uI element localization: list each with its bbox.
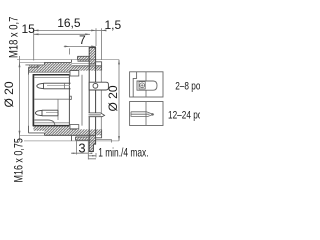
arrow panel [92, 155, 96, 157]
arrow 16,5 right [91, 29, 96, 31]
solder contact 2 (lower, flat tab) [89, 113, 105, 117]
nut step bottom [71, 136, 73, 141]
hatch flange bar top [89, 48, 95, 65]
svg-text:1 min./4 max.: 1 min./4 max. [98, 147, 148, 160]
ring inner wall top [29, 71, 72, 73]
collar box bottom [70, 125, 79, 129]
hatch ring wall bottom band [33, 126, 44, 131]
back shell bottom [96, 129, 102, 137]
leader line M18 top [17, 59, 119, 61]
arrow 1,5 right outside [102, 29, 107, 31]
shroud block top edge [33, 74, 70, 76]
arrows [19, 29, 120, 156]
shroud inner bottom line [34, 122, 69, 124]
dim 3 lines [77, 141, 89, 160]
dim 15 line [34, 33, 90, 35]
arrow 7 right [91, 45, 96, 47]
detail view 1 bracket [133, 72, 136, 97]
detail view 2 divider [145, 102, 147, 126]
ring front face [28, 75, 30, 126]
flange bar [89, 48, 95, 152]
svg-text:M18 x 0,7: M18 x 0,7 [7, 17, 20, 58]
arrow dia20R top [118, 60, 120, 65]
ring bottom edge [45, 134, 96, 136]
cavity step vertical [57, 99, 59, 120]
svg-text:16,5: 16,5 [57, 16, 81, 30]
back shell top [96, 62, 102, 71]
ring top edge tick [20, 61, 45, 63]
arrow 15 left [34, 33, 39, 35]
dim 16,5 line [34, 29, 96, 31]
nut bottom block [76, 137, 90, 140]
thread band bottom edge [72, 128, 78, 130]
dim 1,5 line [96, 29, 106, 31]
key pocket on insert front [69, 96, 71, 99]
ext line flange back [95, 28, 97, 46]
arrow 7 left [65, 45, 70, 47]
hatch thread band top [72, 66, 102, 71]
arrow dia20R bottom [118, 136, 120, 141]
detail view 1 circle [140, 83, 145, 88]
svg-text:7: 7 [79, 33, 86, 47]
leader line M16 bottom [24, 140, 119, 142]
dia20 right dim line [118, 60, 120, 141]
insert block back [81, 75, 83, 126]
arrow 3 left [73, 152, 77, 154]
detail view 1 rect [130, 72, 163, 97]
ext line back shell [101, 28, 103, 60]
hatch nut top [78, 56, 90, 61]
detail view 1 divider [145, 72, 147, 97]
ring bottom edge tick [20, 134, 45, 136]
ring top step [44, 62, 46, 65]
ring front lip top [29, 65, 39, 75]
collar box top [70, 71, 79, 76]
detail view 2 rect [130, 102, 163, 126]
pin 1 inner line [46, 85, 70, 112]
solder contact 1 (upper, with hole) [89, 82, 108, 90]
thread root line [72, 62, 90, 64]
detail view 2 tab tip [152, 114, 154, 116]
key ridge [34, 120, 54, 125]
pin 2 (lower) [42, 110, 58, 116]
arrow 16,5 left [34, 29, 39, 31]
svg-text:3: 3 [78, 141, 85, 156]
ext line left datum [33, 28, 35, 60]
detail view 1 contact cylinder [137, 81, 157, 90]
svg-text:Ø 20: Ø 20 [2, 81, 16, 107]
flange bar top section bottom edge [89, 63, 95, 65]
detail view 1 contact square [139, 82, 145, 89]
svg-text:2–8 pole: 2–8 pole [175, 81, 200, 93]
panel dim lines [88, 153, 96, 159]
cavity mid line [34, 98, 69, 100]
thread band top edge [72, 65, 102, 67]
ring top edge [45, 61, 72, 63]
nut step top [71, 60, 73, 63]
detail view 2 solder tab [131, 112, 153, 117]
arrow dia20L top [19, 62, 21, 67]
nut top block [78, 56, 90, 61]
ring front lip bottom [29, 126, 45, 136]
svg-text:M16 x 0,75: M16 x 0,75 [13, 138, 25, 183]
svg-text:1,5: 1,5 [105, 18, 122, 32]
svg-text:15: 15 [22, 22, 36, 36]
bottom right step line [96, 140, 112, 143]
ring top second line [25, 64, 44, 66]
ext line thread start [68, 48, 70, 54]
svg-text:Ø 20: Ø 20 [106, 85, 120, 111]
hatch flange bar bottom [89, 136, 95, 145]
dia20 left dim line [19, 56, 21, 142]
pin 1 joint tick [63, 83, 65, 89]
hatch ring wall top band [29, 65, 72, 72]
shroud inner top line [34, 77, 69, 79]
insert block front [68, 75, 70, 126]
dim 7 line [64, 45, 96, 47]
shroud block bottom edge [33, 125, 70, 127]
svg-text:12–24 pole: 12–24 pole [168, 109, 200, 121]
hatch thread band bottom [72, 129, 102, 135]
arrow 3 right [88, 152, 92, 154]
arrow dia20L bottom [19, 131, 21, 136]
shroud front face [32, 74, 34, 126]
pin 1 (upper) [44, 83, 71, 89]
arrow 15 right [85, 33, 90, 35]
back face [100, 71, 102, 130]
hatch nut bottom [76, 137, 90, 140]
